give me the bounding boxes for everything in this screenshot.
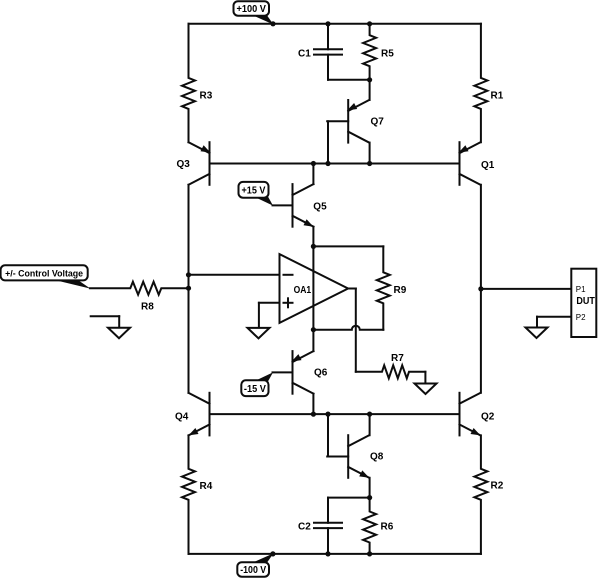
svg-text:R5: R5	[381, 49, 394, 60]
wire Q8 base riser	[327, 456, 348, 458]
ground (R7)	[415, 384, 437, 395]
resistor R8	[90, 282, 189, 295]
transistor Q1	[459, 142, 461, 185]
resistor R2	[474, 435, 487, 554]
resistor R4	[182, 435, 195, 554]
transistor Q3	[209, 142, 211, 185]
wire Q6 base	[273, 371, 293, 373]
svg-text:R3: R3	[200, 91, 213, 102]
svg-text:Q6: Q6	[314, 368, 328, 379]
wire Q5 emitter node to R9 top	[313, 245, 383, 247]
wire Q5 emitter to Q6 collector (crosses op-amp)	[312, 227, 314, 351]
resistor R1	[474, 24, 487, 142]
wire node to R9 bottom with hop over output wire	[313, 326, 383, 330]
resistor R9	[377, 246, 390, 329]
wire Q8 emitter stub	[369, 478, 371, 498]
resistor R7	[356, 365, 426, 378]
svg-text:P2: P2	[576, 313, 586, 322]
node dot	[186, 286, 191, 291]
transistor Q7	[347, 100, 349, 143]
svg-text:R9: R9	[394, 285, 407, 296]
wire DUT P2 to ground	[537, 316, 571, 318]
node dot	[311, 161, 316, 166]
node dot	[325, 21, 330, 26]
svg-text:Q8: Q8	[370, 452, 384, 463]
wire Q5 collector stub	[312, 164, 314, 185]
node dot	[367, 77, 372, 82]
node dot	[325, 551, 330, 556]
node dot	[367, 551, 372, 556]
svg-text:+15 V: +15 V	[242, 185, 266, 196]
wire mid-top rail (Q3 base to Q1 base)	[210, 163, 460, 165]
node dot	[270, 551, 275, 556]
ground (DUT P2)	[526, 328, 548, 339]
svg-text:R6: R6	[381, 522, 394, 533]
svg-text:R2: R2	[491, 481, 504, 492]
wire Q5 base	[273, 204, 293, 206]
node dot	[186, 272, 191, 277]
transistor Q4	[209, 393, 211, 436]
op-amp OA1	[280, 254, 349, 323]
wire output node to DUT P1	[481, 288, 571, 290]
svg-text:C2: C2	[298, 522, 311, 533]
svg-text:OA1: OA1	[294, 285, 312, 296]
svg-text:Q2: Q2	[481, 412, 495, 423]
wire mid-bottom rail (Q4 base to Q2 base)	[210, 413, 460, 415]
node dot	[311, 412, 316, 417]
transistor Q8	[347, 435, 349, 478]
net flag -100 V	[251, 553, 273, 563]
svg-text:R8: R8	[141, 302, 154, 313]
node dot	[367, 161, 372, 166]
node dot	[478, 286, 483, 291]
ground (op-amp plus input)	[248, 328, 270, 339]
ground (control voltage return)	[91, 315, 120, 317]
wire left rail (Q3 collector to Q4 collector)	[188, 185, 190, 393]
node dot	[367, 412, 372, 417]
wire Q7 emitter stub	[369, 80, 371, 100]
svg-text:C1: C1	[298, 49, 311, 60]
capacitor C1	[327, 24, 329, 50]
wire op-amp minus input	[189, 274, 280, 276]
svg-text:DUT: DUT	[576, 296, 595, 307]
resistor R3	[182, 24, 195, 142]
node dot	[367, 495, 372, 500]
node dot	[367, 21, 372, 26]
wire Q7 base drop	[327, 120, 348, 122]
node dot	[270, 21, 275, 26]
resistor R6	[363, 498, 376, 554]
transistor Q5	[292, 184, 294, 227]
svg-text:R4: R4	[200, 481, 213, 492]
transistor Q6	[292, 351, 294, 394]
svg-text:P1: P1	[576, 285, 586, 294]
net flag +15 V	[254, 197, 273, 206]
capacitor C2	[327, 528, 329, 554]
svg-text:Q4: Q4	[175, 412, 189, 423]
net flag +/- Control Voltage	[52, 279, 90, 288]
wire Q6 collector stub	[312, 394, 314, 414]
wire R7 to ground	[424, 372, 426, 384]
svg-text:R1: R1	[491, 91, 504, 102]
svg-text:-15 V: -15 V	[244, 384, 266, 395]
wire Q8 collector stub	[369, 414, 371, 435]
svg-text:Q1: Q1	[481, 160, 495, 171]
node dot	[325, 412, 330, 417]
node dot	[311, 327, 316, 332]
svg-text:Q7: Q7	[371, 117, 385, 128]
net flag -15 V	[254, 372, 273, 381]
svg-text:R7: R7	[391, 353, 404, 364]
wire bottom rail -100V	[189, 553, 481, 555]
svg-text:Q3: Q3	[177, 159, 191, 170]
wire op-amp output	[348, 288, 356, 290]
wire C1 to R5 node	[328, 79, 370, 81]
wire op-amp plus input to ground	[259, 302, 280, 304]
node dot	[311, 244, 316, 249]
svg-text:+100 V: +100 V	[236, 4, 266, 15]
wire top rail +100V	[189, 23, 481, 25]
svg-text:+/- Control Voltage: +/- Control Voltage	[5, 269, 83, 279]
wire C2 to R6 node	[328, 497, 370, 499]
net flag +100 V	[251, 15, 273, 25]
svg-text:Q5: Q5	[313, 202, 327, 213]
transistor Q2	[459, 393, 461, 436]
wire Q7 collector stub	[369, 143, 371, 164]
node dot	[325, 161, 330, 166]
svg-text:-100 V: -100 V	[240, 565, 266, 576]
DUT box	[571, 269, 596, 337]
resistor R5	[363, 24, 376, 80]
wire right rail (Q1 collector to Q2 collector)	[480, 185, 482, 393]
